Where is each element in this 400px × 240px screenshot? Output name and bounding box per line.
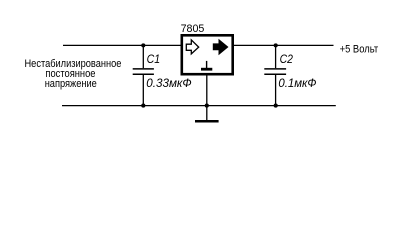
ground (195, 120, 219, 123)
svg-text:0.33мкФ: 0.33мкФ (146, 76, 192, 90)
capacitor C2 (264, 45, 286, 105)
svg-text:7805: 7805 (181, 23, 205, 35)
U1 ground pin symbol (201, 61, 212, 69)
junction ground pin (205, 104, 209, 108)
wire bus to ground symbol (206, 106, 208, 121)
svg-text:напряжение: напряжение (45, 78, 97, 90)
wire output top (233, 44, 334, 46)
svg-text:C2: C2 (280, 52, 294, 66)
svg-text:C1: C1 (147, 52, 161, 66)
U1 output arrow (filled) (213, 39, 229, 55)
wire ground bus (62, 105, 336, 107)
junction C2 bottom (274, 104, 278, 108)
junction C1 top (141, 43, 145, 47)
wire input top (63, 44, 181, 46)
junction C2 top (274, 43, 278, 47)
wire U1 ground pin to bus (206, 75, 208, 106)
U1 input arrow (open) (186, 40, 198, 54)
svg-text:+5 Вольт: +5 Вольт (340, 43, 379, 55)
regulator U1 box (182, 35, 233, 74)
junction C1 bottom (141, 104, 145, 108)
capacitor C1 (133, 45, 154, 105)
svg-text:0.1мкФ: 0.1мкФ (278, 76, 317, 90)
